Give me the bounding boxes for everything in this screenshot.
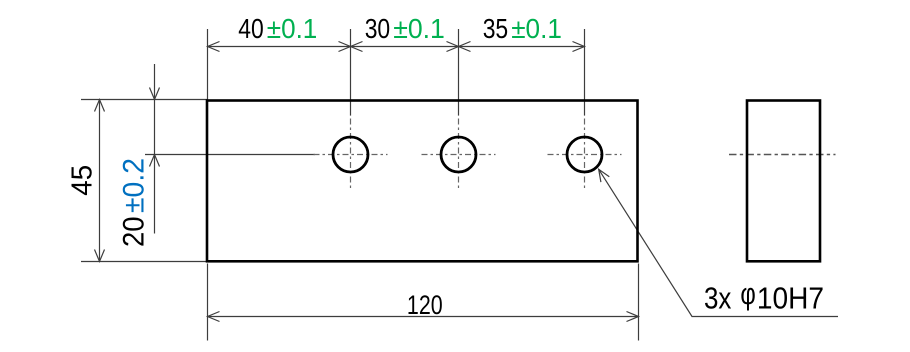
svg-text:3x: 3x xyxy=(704,281,732,316)
svg-text:10H7: 10H7 xyxy=(757,281,824,316)
svg-text:±0.1: ±0.1 xyxy=(393,13,445,44)
svg-text:45: 45 xyxy=(67,165,99,196)
svg-text:±0.1: ±0.1 xyxy=(511,13,562,44)
svg-text:30: 30 xyxy=(365,13,391,44)
svg-text:40: 40 xyxy=(238,13,263,44)
svg-text:φ: φ xyxy=(740,276,755,311)
svg-text:±0.2: ±0.2 xyxy=(117,158,150,213)
svg-text:20: 20 xyxy=(117,216,150,247)
svg-text:120: 120 xyxy=(407,290,443,320)
svg-text:35: 35 xyxy=(483,13,509,44)
svg-text:±0.1: ±0.1 xyxy=(267,13,318,44)
